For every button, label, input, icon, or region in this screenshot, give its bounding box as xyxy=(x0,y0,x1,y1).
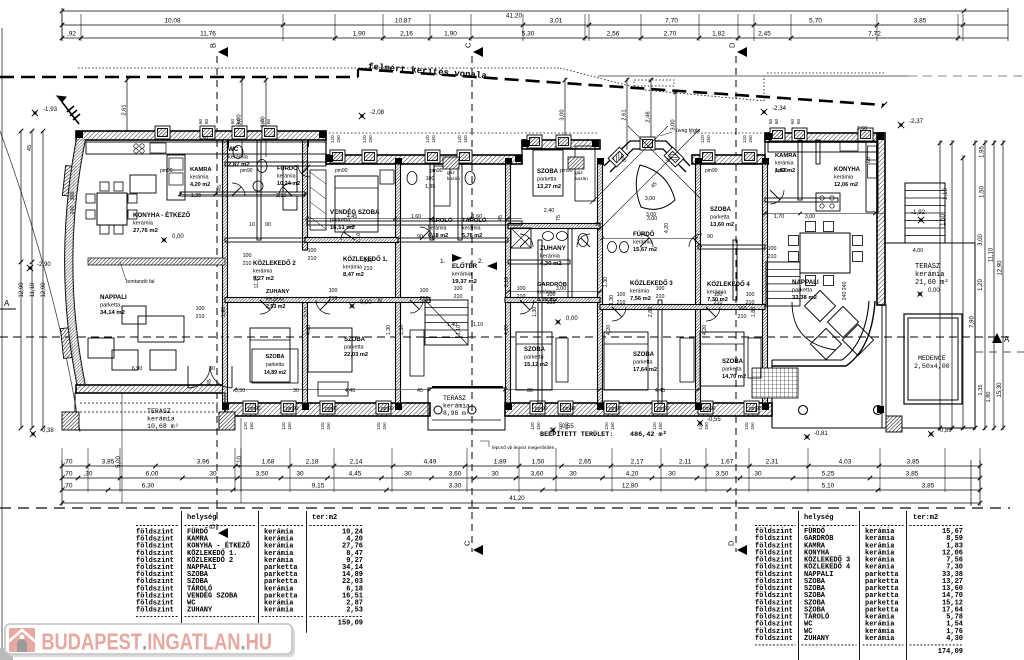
svg-text:2,30: 2,30 xyxy=(276,193,286,199)
bottom chain row2 xyxy=(62,477,980,479)
svg-text:SZOBA: SZOBA xyxy=(344,337,366,343)
svg-text:2,10: 2,10 xyxy=(356,233,362,243)
svg-text:150: 150 xyxy=(706,135,711,143)
svg-text:1,89: 1,89 xyxy=(494,459,507,466)
svg-text:159,09: 159,09 xyxy=(338,620,363,628)
svg-text:,70: ,70 xyxy=(63,471,72,478)
svg-text:60: 60 xyxy=(230,118,235,124)
svg-text:100: 100 xyxy=(746,292,755,298)
svg-text:3,85: 3,85 xyxy=(922,483,935,490)
svg-text:kazán: kazán xyxy=(575,176,588,182)
svg-text:1,10: 1,10 xyxy=(473,322,483,328)
svg-text:1,35: 1,35 xyxy=(425,184,435,190)
svg-text:3,60: 3,60 xyxy=(531,471,544,478)
svg-text:4,00: 4,00 xyxy=(913,248,923,254)
svg-text:0,00: 0,00 xyxy=(928,288,940,294)
svg-text:12,90: 12,90 xyxy=(41,282,47,298)
svg-text:4,45: 4,45 xyxy=(347,214,357,220)
svg-text:BUDAPEST.INGATLAN.HU: BUDAPEST.INGATLAN.HU xyxy=(41,629,272,655)
svg-text:NAPPALI: NAPPALI xyxy=(100,294,127,301)
svg-text:parketta: parketta xyxy=(792,288,813,294)
svg-text:150: 150 xyxy=(704,422,709,430)
svg-text:D: D xyxy=(727,540,736,546)
svg-text:kerámia: kerámia xyxy=(462,226,481,232)
svg-text:150: 150 xyxy=(249,422,254,430)
svg-text:2,17: 2,17 xyxy=(631,459,644,466)
svg-text:22,03 m2: 22,03 m2 xyxy=(344,352,368,358)
svg-text:15,67 m2: 15,67 m2 xyxy=(633,247,657,253)
svg-text:100: 100 xyxy=(329,288,338,294)
svg-text:gáz: gáz xyxy=(447,170,455,176)
svg-text:12,90: 12,90 xyxy=(998,260,1004,276)
svg-text:150: 150 xyxy=(610,422,615,430)
svg-text:pm90: pm90 xyxy=(563,406,576,412)
svg-text:5,25: 5,25 xyxy=(822,471,835,478)
pool corner block xyxy=(886,416,902,432)
svg-text:pm90: pm90 xyxy=(335,168,348,174)
svg-text:1,67: 1,67 xyxy=(721,459,734,466)
svg-text:4,46: 4,46 xyxy=(345,388,355,394)
svg-text:3,85: 3,85 xyxy=(914,18,927,25)
sofa diagonal right wing xyxy=(804,290,835,321)
svg-text:parketta: parketta xyxy=(710,215,729,221)
svg-text:210: 210 xyxy=(308,256,317,262)
svg-text:kerámia: kerámia xyxy=(452,272,473,278)
svg-text:2,46: 2,46 xyxy=(646,111,652,122)
svg-text:6,00: 6,00 xyxy=(146,471,159,478)
svg-text:4,45: 4,45 xyxy=(655,388,665,394)
elevation markers bottom xyxy=(30,431,36,437)
svg-text:100: 100 xyxy=(426,176,435,182)
svg-text:27,76 m2: 27,76 m2 xyxy=(133,228,159,234)
svg-text:parketta: parketta xyxy=(266,362,284,368)
section line B xyxy=(216,56,218,530)
svg-text:240: 240 xyxy=(842,292,848,301)
svg-text:SZOBA: SZOBA xyxy=(537,169,559,175)
svg-text:1,50: 1,50 xyxy=(532,459,545,466)
svg-text:0,00: 0,00 xyxy=(172,234,184,240)
svg-text:bontandó fal: bontandó fal xyxy=(126,279,155,285)
north arrow xyxy=(62,102,80,124)
svg-text:60: 60 xyxy=(790,118,795,124)
svg-text:12,06 m2: 12,06 m2 xyxy=(834,182,858,188)
top dimension chain total 41,20 xyxy=(62,10,1008,12)
door arcs xyxy=(232,183,245,196)
internal dim lines xyxy=(602,238,696,240)
svg-text:kerámia: kerámia xyxy=(266,297,284,303)
svg-text:4,95: 4,95 xyxy=(306,325,312,335)
svg-text:ter:m2: ter:m2 xyxy=(312,514,337,522)
curved left wall xyxy=(65,133,78,388)
svg-text:SZOBA: SZOBA xyxy=(633,352,655,358)
svg-text:-2,37: -2,37 xyxy=(909,118,924,125)
svg-text:100: 100 xyxy=(547,292,556,298)
svg-text:5,10: 5,10 xyxy=(822,483,835,490)
svg-text:-2,34: -2,34 xyxy=(772,105,787,112)
svg-text:1,90: 1,90 xyxy=(444,31,457,38)
zero elevation markers xyxy=(161,237,166,242)
svg-text:12,90: 12,90 xyxy=(19,282,25,298)
svg-text:6,30: 6,30 xyxy=(142,483,155,490)
small stairs right wing inner xyxy=(766,262,800,306)
svg-text:2,87 m2: 2,87 m2 xyxy=(228,162,250,168)
svg-text:3,85: 3,85 xyxy=(907,459,920,466)
logo box xyxy=(9,627,295,657)
bottom chain row3 xyxy=(62,489,980,491)
svg-text:3,00: 3,00 xyxy=(645,196,655,202)
svg-text:45: 45 xyxy=(217,185,223,191)
svg-text:30: 30 xyxy=(296,471,304,478)
svg-text:kerámia: kerámia xyxy=(264,607,294,615)
svg-text:210: 210 xyxy=(364,266,373,272)
svg-text:kerámia: kerámia xyxy=(834,175,853,181)
svg-text:4,20: 4,20 xyxy=(626,471,639,478)
svg-text:100: 100 xyxy=(308,248,317,254)
svg-text:13,60 m2: 13,60 m2 xyxy=(710,222,734,228)
svg-text:210: 210 xyxy=(746,300,755,306)
svg-text:A: A xyxy=(1004,335,1010,344)
svg-text:30: 30 xyxy=(293,388,299,394)
svg-text:21,60 m²: 21,60 m² xyxy=(915,279,949,287)
svg-text:4,30: 4,30 xyxy=(946,635,963,643)
dashed separator line xyxy=(0,507,1010,509)
right area table xyxy=(798,511,800,660)
svg-text:4,20: 4,20 xyxy=(606,325,612,335)
svg-text:120: 120 xyxy=(700,135,705,143)
svg-text:10,87: 10,87 xyxy=(395,18,412,25)
dining table left xyxy=(97,193,127,225)
svg-text:1,83 m2: 1,83 m2 xyxy=(775,168,795,174)
svg-text:4,20: 4,20 xyxy=(664,223,670,233)
svg-text:150: 150 xyxy=(382,422,387,430)
svg-text:pm90: pm90 xyxy=(325,406,338,412)
svg-text:2.: 2. xyxy=(478,258,484,265)
svg-text:4,30 m2: 4,30 m2 xyxy=(540,261,562,267)
terasz left xyxy=(75,393,225,430)
svg-text:120: 120 xyxy=(652,422,657,430)
svg-text:kerámia: kerámia xyxy=(228,155,249,161)
svg-text:1,35: 1,35 xyxy=(191,193,201,199)
svg-text:120: 120 xyxy=(744,422,749,430)
svg-text:1,60: 1,60 xyxy=(411,214,421,220)
svg-text:120: 120 xyxy=(362,135,367,143)
svg-text:2,10: 2,10 xyxy=(504,277,510,287)
svg-text:100: 100 xyxy=(196,306,205,312)
svg-text:KAMRA: KAMRA xyxy=(775,153,797,159)
svg-text:NAPPALI: NAPPALI xyxy=(792,279,819,286)
svg-text:KAMRA: KAMRA xyxy=(190,167,212,173)
svg-text:ter:m2: ter:m2 xyxy=(913,514,938,522)
svg-text:parketta: parketta xyxy=(722,367,741,373)
kitchen counter xyxy=(86,142,326,154)
svg-text:-2,08: -2,08 xyxy=(370,109,385,116)
fence thick dashed line (property) xyxy=(0,76,358,79)
svg-text:-0,89: -0,89 xyxy=(938,428,952,434)
svg-text:TÁROLÓ: TÁROLÓ xyxy=(428,216,453,224)
dotted survey offsets xyxy=(78,67,560,69)
extra fixtures top mid xyxy=(407,172,417,185)
curved wall windows xyxy=(62,166,75,197)
svg-text:1,82: 1,82 xyxy=(712,31,725,38)
grid paving square xyxy=(752,368,798,398)
svg-text:150: 150 xyxy=(287,422,292,430)
svg-text:kazán: kazán xyxy=(447,176,460,182)
svg-text:kerámia: kerámia xyxy=(540,254,561,260)
svg-text:120: 120 xyxy=(425,135,430,143)
svg-text:30: 30 xyxy=(209,471,217,478)
svg-text:2,61: 2,61 xyxy=(622,109,628,120)
svg-text:helység: helység xyxy=(804,514,833,522)
windows on bottom walls xyxy=(243,401,258,414)
svg-text:-1,92: -1,92 xyxy=(911,209,926,216)
storage shelves xyxy=(434,166,450,206)
svg-text:100: 100 xyxy=(243,253,252,259)
svg-text:1,50: 1,50 xyxy=(941,214,947,226)
interior walls xyxy=(223,140,228,403)
svg-text:60: 60 xyxy=(236,118,241,124)
top dimension chain row3 xyxy=(62,37,958,39)
svg-text:kerámia: kerámia xyxy=(277,174,296,180)
svg-text:150: 150 xyxy=(463,135,468,143)
svg-text:1,70: 1,70 xyxy=(774,214,784,220)
svg-text:2,60: 2,60 xyxy=(857,126,867,132)
svg-text:kerámia: kerámia xyxy=(343,265,362,271)
svg-text:210: 210 xyxy=(617,300,626,306)
svg-text:kerámia: kerámia xyxy=(633,240,652,246)
svg-text:60: 60 xyxy=(774,118,779,124)
svg-text:120: 120 xyxy=(281,422,286,430)
svg-text:30: 30 xyxy=(209,366,215,372)
svg-text:90: 90 xyxy=(707,234,713,240)
svg-text:8,47 m2: 8,47 m2 xyxy=(343,272,364,278)
svg-text:1,30: 1,30 xyxy=(609,295,615,305)
svg-text:2,10: 2,10 xyxy=(304,307,310,317)
terasz entry xyxy=(428,388,505,430)
svg-text:150: 150 xyxy=(431,135,436,143)
svg-text:14,70 m2: 14,70 m2 xyxy=(722,374,746,380)
windows on top walls xyxy=(155,126,170,139)
svg-text:2,80: 2,80 xyxy=(648,307,654,317)
wall junction blocks xyxy=(76,131,83,138)
svg-text:FÜRDŐ: FÜRDŐ xyxy=(277,165,298,172)
section line C xyxy=(471,56,473,552)
svg-text:210: 210 xyxy=(714,300,723,306)
left border line xyxy=(1,28,3,660)
elevation markers top xyxy=(32,110,38,116)
svg-text:WC: WC xyxy=(228,146,239,153)
svg-text:BEÉPÍTETT TERÜLET:: BEÉPÍTETT TERÜLET: xyxy=(540,430,613,439)
svg-text:2,40: 2,40 xyxy=(544,208,554,214)
svg-text:2,14: 2,14 xyxy=(350,459,363,466)
svg-text:10,68 m²: 10,68 m² xyxy=(147,423,179,430)
svg-text:kerámia: kerámia xyxy=(915,271,944,279)
svg-text:4,49: 4,49 xyxy=(424,459,437,466)
svg-text:300: 300 xyxy=(70,192,76,201)
svg-text:parketta: parketta xyxy=(633,360,652,366)
section line A-A horizontal xyxy=(0,336,1010,338)
svg-text:240: 240 xyxy=(842,282,848,291)
svg-text:2,56: 2,56 xyxy=(607,31,620,38)
svg-text:60: 60 xyxy=(204,118,209,124)
svg-text:gáz: gáz xyxy=(575,170,583,176)
svg-text:MEDENCE: MEDENCE xyxy=(918,355,946,362)
bay windows diagonal xyxy=(608,147,628,167)
svg-text:A: A xyxy=(4,299,10,308)
svg-text:14,89 m2: 14,89 m2 xyxy=(264,370,286,376)
svg-text:kerámia: kerámia xyxy=(147,416,175,423)
svg-text:210: 210 xyxy=(547,300,556,306)
svg-text:pm90: pm90 xyxy=(703,406,716,412)
svg-text:KONYHA: KONYHA xyxy=(834,167,861,173)
svg-text:2,50x4,00: 2,50x4,00 xyxy=(914,363,950,370)
svg-text:FÜRDŐ: FÜRDŐ xyxy=(633,231,655,238)
svg-text:földszint: földszint xyxy=(755,635,793,643)
svg-text:90: 90 xyxy=(265,222,271,228)
pool MEDENCE xyxy=(904,314,962,404)
svg-text:10,24 m2: 10,24 m2 xyxy=(277,181,300,187)
svg-text:1,68: 1,68 xyxy=(262,459,275,466)
svg-text:SZOBA: SZOBA xyxy=(266,354,285,360)
svg-text:33,38 m2: 33,38 m2 xyxy=(792,295,818,301)
bathroom fixtures xyxy=(233,146,243,159)
svg-text:19,37 m2: 19,37 m2 xyxy=(452,279,478,285)
boxed szoba 14,89 label xyxy=(252,349,298,383)
dashed line right of terrace xyxy=(975,351,1024,353)
svg-text:C: C xyxy=(464,42,473,48)
svg-text:1,30: 1,30 xyxy=(603,277,609,287)
svg-text:16,51 m2: 16,51 m2 xyxy=(330,225,356,231)
svg-text:2,53: 2,53 xyxy=(346,607,363,615)
svg-text:pm90: pm90 xyxy=(286,406,299,412)
svg-text:1.: 1. xyxy=(440,258,446,265)
svg-text:2,65: 2,65 xyxy=(579,459,592,466)
svg-text:kerámia: kerámia xyxy=(865,635,895,643)
bay bathtub xyxy=(636,165,675,209)
svg-text:3,00: 3,00 xyxy=(556,286,566,292)
svg-text:3,00: 3,00 xyxy=(646,212,656,218)
svg-text:210: 210 xyxy=(517,294,526,300)
svg-text:100: 100 xyxy=(420,288,429,294)
svg-text:13,27 m2: 13,27 m2 xyxy=(537,184,561,190)
svg-text:1,80: 1,80 xyxy=(751,307,757,317)
svg-text:pm90: pm90 xyxy=(749,406,762,412)
svg-text:150: 150 xyxy=(748,135,753,143)
nappali right curved corner + bottom wall xyxy=(846,301,875,366)
svg-text:10,08: 10,08 xyxy=(164,18,181,25)
survey line right (thin) xyxy=(598,75,908,77)
bed vendeg szoba xyxy=(335,176,378,232)
svg-text:-0,81: -0,81 xyxy=(814,431,828,437)
bottom chain row1 xyxy=(62,465,980,467)
svg-text:1,30: 1,30 xyxy=(386,325,392,335)
svg-text:pm90: pm90 xyxy=(381,406,394,412)
section marker B bottom xyxy=(218,528,228,538)
svg-text:15,12 m2: 15,12 m2 xyxy=(524,362,548,368)
entry stairs xyxy=(425,300,468,345)
svg-text:4,20: 4,20 xyxy=(702,325,708,335)
svg-text:KÖZLEKEDŐ 2: KÖZLEKEDŐ 2 xyxy=(253,260,296,267)
svg-text:parketta: parketta xyxy=(524,355,543,361)
svg-text:3,50: 3,50 xyxy=(235,388,245,394)
svg-text:pm90: pm90 xyxy=(240,168,253,174)
beds bottom rooms xyxy=(250,328,290,382)
svg-text:100: 100 xyxy=(364,258,373,264)
svg-text:60: 60 xyxy=(768,118,773,124)
svg-text:7,56 m2: 7,56 m2 xyxy=(630,296,651,302)
svg-text:D: D xyxy=(728,42,737,48)
svg-text:2,18: 2,18 xyxy=(306,459,319,466)
svg-text:6,90: 6,90 xyxy=(132,366,142,372)
svg-text:SZOBA: SZOBA xyxy=(524,347,546,353)
svg-text:11,76: 11,76 xyxy=(200,31,216,38)
svg-text:5,78 m2: 5,78 m2 xyxy=(462,233,482,239)
svg-text:120: 120 xyxy=(243,422,248,430)
svg-text:-1,93: -1,93 xyxy=(43,106,58,113)
svg-text:120: 120 xyxy=(320,422,325,430)
svg-text:kerámia: kerámia xyxy=(428,226,447,232)
svg-text:120: 120 xyxy=(376,422,381,430)
svg-text:SZOBA: SZOBA xyxy=(710,207,732,213)
wardrobes bottom rooms xyxy=(410,330,424,376)
extension lines bottom dims xyxy=(61,448,63,492)
svg-text:KÖZLEKEDŐ 3: KÖZLEKEDŐ 3 xyxy=(630,280,673,287)
svg-text:0,00: 0,00 xyxy=(360,300,372,306)
svg-text:ZUHANY: ZUHANY xyxy=(187,607,213,615)
svg-text:TERASZ: TERASZ xyxy=(147,408,171,415)
svg-text:210: 210 xyxy=(243,261,252,267)
left vertical dims xyxy=(20,131,22,428)
bontando fal strip xyxy=(88,258,225,265)
svg-text:4,20: 4,20 xyxy=(504,325,510,335)
svg-text:kerámia: kerámia xyxy=(630,289,649,295)
svg-text:60: 60 xyxy=(266,118,271,124)
svg-text:helység: helység xyxy=(187,514,216,522)
svg-text:210: 210 xyxy=(656,294,665,300)
svg-text:45: 45 xyxy=(498,215,504,221)
left area table xyxy=(181,511,183,633)
svg-text:4,10: 4,10 xyxy=(237,456,243,468)
svg-text:30: 30 xyxy=(491,471,499,478)
svg-text:150: 150 xyxy=(536,422,541,430)
bottom chain row4 xyxy=(62,502,980,504)
svg-text:pm90: pm90 xyxy=(657,406,670,412)
svg-text:kerámia: kerámia xyxy=(190,175,209,181)
svg-text:486,42 m²: 486,42 m² xyxy=(630,431,667,439)
svg-text:ZUHANY: ZUHANY xyxy=(266,289,290,295)
svg-text:KONYHA - ÉTKEZŐ: KONYHA - ÉTKEZŐ xyxy=(133,211,190,219)
svg-text:1,95: 1,95 xyxy=(980,146,986,158)
svg-text:1,30: 1,30 xyxy=(532,307,538,317)
svg-text:11,10: 11,10 xyxy=(989,247,995,262)
svg-text:pm90: pm90 xyxy=(430,168,443,174)
svg-text:-0,55: -0,55 xyxy=(560,424,574,430)
svg-text:2,61: 2,61 xyxy=(122,104,128,115)
bay window walls xyxy=(604,141,690,166)
svg-text:pm90: pm90 xyxy=(609,406,622,412)
svg-text:1,90: 1,90 xyxy=(353,31,366,38)
svg-text:150: 150 xyxy=(658,422,663,430)
terasz right outline xyxy=(884,242,975,244)
svg-text:4,45: 4,45 xyxy=(349,471,362,478)
svg-text:60: 60 xyxy=(260,118,265,124)
szoba 13,27 bed xyxy=(533,150,563,196)
svg-text:3,85: 3,85 xyxy=(906,471,919,478)
logo house icon xyxy=(8,628,36,652)
svg-text:11,10: 11,10 xyxy=(254,276,260,289)
svg-text:41,20: 41,20 xyxy=(506,13,522,20)
svg-text:1,20: 1,20 xyxy=(978,279,984,291)
bottom exterior walls xyxy=(76,385,225,393)
